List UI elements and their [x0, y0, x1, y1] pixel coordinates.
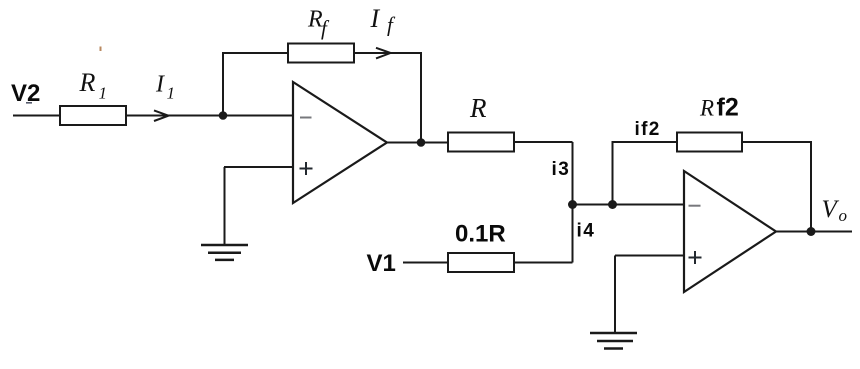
- wire summing node to U2 inverting input: [573, 204, 685, 206]
- label Rf2: [699, 94, 739, 122]
- U2 minus pin: [689, 205, 701, 207]
- label I1: [155, 72, 175, 103]
- svg-text:R: R: [469, 93, 487, 123]
- node A junction dot: [219, 111, 228, 120]
- wire U1 non-inverting input: [224, 166, 293, 168]
- U1 minus pin: [300, 117, 312, 119]
- wire R to node i3: [514, 141, 573, 143]
- stray dash under V2: [26, 102, 32, 104]
- svg-text:f2: f2: [717, 94, 739, 122]
- stray mark artifact: [100, 47, 102, 52]
- label Rf: [307, 7, 330, 41]
- ground: [201, 245, 248, 260]
- svg-text:R: R: [699, 96, 714, 121]
- svg-text:i4: i4: [577, 221, 596, 242]
- wire V2 input: [13, 115, 60, 117]
- wire 0.1R to i4 vertical: [514, 262, 573, 264]
- wire feedback top left: [222, 52, 288, 54]
- svg-text:i3: i3: [552, 159, 571, 180]
- label Vo: [822, 196, 848, 225]
- op-amp U1: [293, 82, 387, 203]
- node U1 output junction dot: [417, 138, 426, 147]
- node Vo junction dot: [807, 227, 816, 236]
- wire Rf to feedback right vertical: [354, 52, 421, 54]
- wire U2 non-inverting input: [615, 255, 684, 257]
- resistor Rf: [288, 44, 354, 63]
- ground: [590, 333, 637, 349]
- wire Rf2 to feedback2 right vertical: [742, 141, 811, 143]
- svg-text:V2: V2: [11, 80, 40, 107]
- wire feedback2 top left: [612, 141, 678, 143]
- label R1: [79, 68, 108, 103]
- wire to ground 2: [614, 256, 616, 334]
- resistor R: [448, 133, 514, 152]
- wire feedback right vertical: [420, 52, 422, 143]
- current arrow If: [376, 48, 391, 59]
- wire feedback2 left vertical: [612, 142, 614, 205]
- wire i3 vertical: [572, 142, 574, 205]
- U1 plus pin: [300, 162, 313, 175]
- wire U1 output: [387, 142, 448, 144]
- wire to ground 1: [224, 167, 226, 246]
- svg-text:R: R: [79, 68, 96, 97]
- wire feedback left vertical: [222, 53, 224, 116]
- wire node A to U1 inverting input: [223, 115, 293, 117]
- wire feedback2 right vertical: [810, 141, 812, 232]
- wire R1 to node A: [126, 115, 223, 117]
- wire U2 output: [776, 231, 852, 233]
- wire i4 vertical: [572, 205, 574, 263]
- wire V1 input: [403, 262, 448, 264]
- node feedback2 junction dot: [608, 200, 617, 209]
- node i3-i4 junction dot: [568, 200, 577, 209]
- svg-text:V1: V1: [367, 250, 396, 277]
- U2 plus pin: [689, 251, 702, 264]
- svg-text:I: I: [370, 4, 381, 33]
- svg-text:o: o: [839, 206, 848, 225]
- resistor R1: [60, 106, 126, 125]
- resistor Rf2: [677, 133, 742, 152]
- svg-text:if2: if2: [635, 119, 661, 140]
- resistor 0.1R: [448, 253, 514, 272]
- label If: [370, 4, 397, 37]
- op-amp U2: [684, 171, 776, 292]
- svg-text:I: I: [155, 72, 165, 98]
- current arrow I1: [154, 110, 169, 121]
- svg-text:0.1R: 0.1R: [455, 221, 506, 248]
- svg-text:1: 1: [167, 84, 176, 103]
- svg-text:1: 1: [99, 84, 108, 103]
